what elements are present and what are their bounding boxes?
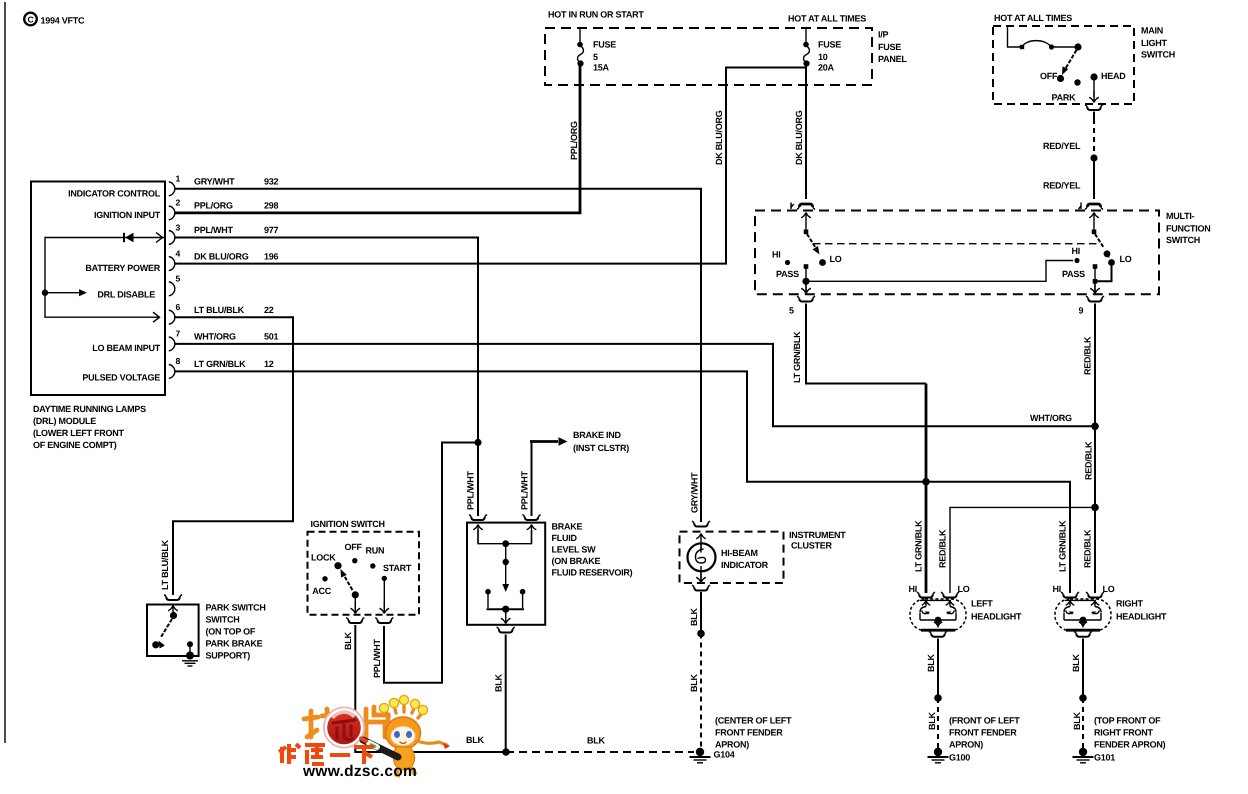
svg-text:HI: HI xyxy=(772,250,781,260)
arrowhead into pin 3 xyxy=(156,233,163,243)
svg-text:(DRL) MODULE: (DRL) MODULE xyxy=(33,416,96,426)
svg-text:10: 10 xyxy=(818,52,828,62)
DRL pin 4 connector xyxy=(169,257,175,271)
splice S406 xyxy=(1090,154,1097,161)
wire BLK dashed to ground xyxy=(937,698,939,748)
svg-text:FLUID RESERVOIR): FLUID RESERVOIR) xyxy=(552,568,633,578)
copyright symbol 1994 VFTC xyxy=(24,13,85,26)
DRL pin 1 connector xyxy=(169,182,175,196)
svg-text:INDICATOR CONTROL: INDICATOR CONTROL xyxy=(68,189,161,199)
wire LT GRN/BLK 12 pin8 to right headlight HI xyxy=(175,371,1070,593)
svg-text:FUSE: FUSE xyxy=(593,40,616,50)
ground G101 xyxy=(1079,748,1087,756)
svg-text:HEADLIGHT: HEADLIGHT xyxy=(1116,612,1167,622)
svg-text:LEFT: LEFT xyxy=(971,599,993,609)
connector below ignition (START) xyxy=(378,620,392,623)
svg-text:PARK SWITCH: PARK SWITCH xyxy=(206,603,266,613)
svg-text:www.dzsc.com: www.dzsc.com xyxy=(302,763,417,780)
svg-text:6: 6 xyxy=(176,302,181,312)
svg-text:RED/BLK: RED/BLK xyxy=(938,529,948,568)
svg-text:FUSE: FUSE xyxy=(818,40,841,50)
svg-text:FLUID: FLUID xyxy=(552,533,578,543)
right LO to output wire xyxy=(1095,263,1112,282)
wire BLK left headlight xyxy=(937,639,939,699)
wire PPL/WHT branch to ignition switch START xyxy=(384,443,478,683)
svg-text:FENDER APRON): FENDER APRON) xyxy=(1094,740,1166,750)
svg-text:BLK: BLK xyxy=(689,608,699,626)
fuse 10 20A xyxy=(803,28,841,73)
svg-text:LO: LO xyxy=(1120,254,1132,264)
svg-text:LT BLU/BLK: LT BLU/BLK xyxy=(160,539,170,590)
ignition wiper arm xyxy=(342,572,353,591)
svg-text:15A: 15A xyxy=(593,63,610,73)
svg-text:OF ENGINE COMPT): OF ENGINE COMPT) xyxy=(33,440,117,450)
svg-text:(INST CLSTR): (INST CLSTR) xyxy=(573,443,629,453)
svg-text:SWITCH: SWITCH xyxy=(1166,235,1200,245)
svg-text:RED/BLK: RED/BLK xyxy=(1083,529,1093,568)
svg-text:HOT IN RUN OR START: HOT IN RUN OR START xyxy=(548,10,644,20)
label PARK SWITCH (ON TOP OF PARK BRAKE SUPPORT) xyxy=(206,603,266,661)
ignition BLK output arrow xyxy=(354,596,356,609)
svg-text:LO: LO xyxy=(830,254,842,264)
svg-text:BRAKE IND: BRAKE IND xyxy=(573,430,622,440)
svg-text:RED/YEL: RED/YEL xyxy=(1043,181,1081,191)
svg-text:PPL/ORG: PPL/ORG xyxy=(194,201,233,211)
svg-text:BLK: BLK xyxy=(926,654,936,672)
HEAD contact dot xyxy=(1090,73,1097,80)
DRL pin 7 connector xyxy=(169,337,175,351)
svg-text:5: 5 xyxy=(176,274,181,284)
connector below MF left (pin 5) xyxy=(799,299,813,302)
wire RED/BLK multi-function pin9 to right headlight LO xyxy=(1094,304,1096,594)
pin mark right (1) xyxy=(1080,203,1082,210)
svg-text:BATTERY POWER: BATTERY POWER xyxy=(85,263,160,273)
svg-text:PARK BRAKE: PARK BRAKE xyxy=(206,639,263,649)
page left border line xyxy=(4,2,6,743)
svg-text:(CENTER OF LEFT: (CENTER OF LEFT xyxy=(715,716,792,726)
svg-text:977: 977 xyxy=(264,225,279,235)
svg-text:MULTI-: MULTI- xyxy=(1166,211,1195,221)
svg-text:SWITCH: SWITCH xyxy=(206,615,240,625)
wire BLK right headlight xyxy=(1082,639,1084,699)
main light switch wiper pivot xyxy=(1074,43,1081,50)
svg-text:8: 8 xyxy=(176,356,181,366)
svg-text:PARK: PARK xyxy=(1052,93,1077,103)
main light switch internal feed wire xyxy=(1008,26,1021,47)
multi-function switch dashed box xyxy=(755,211,1159,295)
brake switch internal tie xyxy=(478,530,532,544)
svg-text:OFF: OFF xyxy=(345,542,363,552)
splice WHT/ORG into RED/BLK xyxy=(1091,423,1099,431)
hi-beam indicator input arrow xyxy=(696,534,706,553)
DRL pin 2 connector xyxy=(169,206,175,220)
left PASS contact xyxy=(804,264,809,269)
connector G100 HI xyxy=(919,595,933,598)
svg-text:FRONT FENDER: FRONT FENDER xyxy=(949,728,1017,738)
svg-text:501: 501 xyxy=(264,332,279,342)
svg-text:APRON): APRON) xyxy=(715,740,749,750)
svg-text:GRY/WHT: GRY/WHT xyxy=(690,472,700,513)
wire BLK dashed to G104 xyxy=(700,634,702,749)
connector below MF right (pin 9) xyxy=(1088,299,1102,302)
connector G101 HI xyxy=(1063,595,1077,598)
svg-text:PPL/WHT: PPL/WHT xyxy=(466,471,476,510)
watermark dzsc logo xyxy=(279,695,450,780)
splice dot bus xyxy=(502,748,510,756)
label I/P FUSE PANEL xyxy=(878,30,907,65)
right headlight bulb xyxy=(1055,599,1111,631)
svg-text:LT GRN/BLK: LT GRN/BLK xyxy=(1058,520,1068,572)
svg-text:LO BEAM INPUT: LO BEAM INPUT xyxy=(92,343,161,353)
svg-text:1994 VFTC: 1994 VFTC xyxy=(41,16,86,26)
park switch input arrow xyxy=(168,606,178,613)
svg-text:START: START xyxy=(383,563,412,573)
brake switch right pin arrow xyxy=(527,525,537,544)
svg-text:LT GRN/BLK: LT GRN/BLK xyxy=(792,331,802,383)
connector below ignition (BLK) xyxy=(349,620,363,623)
svg-text:(FRONT OF LEFT: (FRONT OF LEFT xyxy=(949,716,1020,726)
left LO contact xyxy=(819,259,826,266)
connector above park brake switch xyxy=(166,597,180,600)
main light switch wiper arm xyxy=(1064,50,1077,71)
brake switch output arrow xyxy=(505,609,507,619)
svg-text:PANEL: PANEL xyxy=(878,54,907,64)
wire PPL/ORG 298 pin2 to fuse 5 xyxy=(175,64,580,213)
svg-text:HI: HI xyxy=(1072,246,1081,256)
left output arrow down xyxy=(805,268,807,292)
svg-text:G101: G101 xyxy=(1094,753,1115,763)
park switch ground xyxy=(186,652,194,660)
svg-text:12: 12 xyxy=(264,359,274,369)
wire RED/BLK to left headlight LO xyxy=(950,507,1092,593)
svg-text:932: 932 xyxy=(264,177,279,187)
splice LT GRN/BLK xyxy=(922,478,930,486)
svg-text:FUSE: FUSE xyxy=(878,42,901,52)
brake switch left pin arrow xyxy=(473,525,483,544)
main light switch contact node xyxy=(1020,45,1024,49)
svg-text:CLUSTER: CLUSTER xyxy=(791,541,833,551)
connector below brake switch xyxy=(499,630,513,633)
wire BLK ignition to ground bus xyxy=(355,625,506,752)
label DAYTIME RUNNING LAMPS (DRL) MODULE xyxy=(33,404,146,450)
hi-beam output arrow xyxy=(700,571,702,581)
svg-text:I/P: I/P xyxy=(878,30,889,40)
OFF contact dot xyxy=(1057,75,1064,82)
connector above brake switch right pin xyxy=(525,517,539,520)
label G101 location xyxy=(1094,716,1166,763)
splice RED/BLK to left headlight LO xyxy=(1091,504,1099,512)
DRL internal bus wire xyxy=(45,238,165,318)
svg-text:IGNITION SWITCH: IGNITION SWITCH xyxy=(311,519,385,529)
svg-text:APRON): APRON) xyxy=(949,740,983,750)
connector above instrument cluster xyxy=(694,524,708,527)
svg-text:MAIN: MAIN xyxy=(1141,26,1163,36)
left output junction dot xyxy=(802,278,809,285)
DRL pin 6 connector xyxy=(169,310,175,324)
svg-text:(LOWER LEFT FRONT: (LOWER LEFT FRONT xyxy=(33,428,124,438)
svg-text:5: 5 xyxy=(593,52,598,62)
svg-text:RIGHT FRONT: RIGHT FRONT xyxy=(1094,728,1153,738)
svg-text:HI-BEAM: HI-BEAM xyxy=(721,548,758,558)
main light switch dashed box xyxy=(993,26,1134,104)
svg-text:G100: G100 xyxy=(949,753,970,763)
svg-text:RED/YEL: RED/YEL xyxy=(1043,141,1081,151)
svg-text:DK BLU/ORG: DK BLU/ORG xyxy=(794,110,804,165)
svg-text:RED/BLK: RED/BLK xyxy=(1083,336,1093,375)
svg-text:BLK: BLK xyxy=(494,674,504,692)
pin mark left (flat symbol) xyxy=(790,203,792,210)
splice PPL/WHT xyxy=(474,439,481,446)
hi-beam indicator lamp xyxy=(688,543,716,571)
brake fluid level switch box xyxy=(467,523,545,625)
svg-text:HEAD: HEAD xyxy=(1101,71,1126,81)
ground G104 xyxy=(696,748,704,756)
arrowhead into pin 6 xyxy=(153,312,160,322)
svg-text:DRL DISABLE: DRL DISABLE xyxy=(97,290,155,300)
right LO contact xyxy=(1108,259,1115,266)
left wiper arm xyxy=(807,234,817,250)
svg-text:PULSED VOLTAGE: PULSED VOLTAGE xyxy=(82,373,160,383)
svg-text:GRY/WHT: GRY/WHT xyxy=(194,177,235,187)
svg-text:DK BLU/ORG: DK BLU/ORG xyxy=(194,251,249,261)
svg-text:INDICATOR: INDICATOR xyxy=(721,560,769,570)
DRL disable node and arrow xyxy=(42,290,48,296)
right dimmer switch arrow input xyxy=(1089,213,1099,232)
svg-text:HI: HI xyxy=(909,584,918,594)
wire WHT/ORG 501 pin7 to low beam splice xyxy=(175,344,1092,426)
left headlight bulb xyxy=(910,599,966,631)
wire DK BLU/ORG fuse 10 to multi-function switch xyxy=(805,64,807,199)
PARK contact dot xyxy=(1074,79,1080,85)
svg-text:LIGHT: LIGHT xyxy=(1141,38,1167,48)
svg-text:9: 9 xyxy=(1079,306,1084,316)
I/P fuse panel dashed box xyxy=(545,28,872,85)
svg-text:DAYTIME RUNNING LAMPS: DAYTIME RUNNING LAMPS xyxy=(33,404,146,414)
svg-text:(ON BRAKE: (ON BRAKE xyxy=(552,556,601,566)
brake switch float stem xyxy=(505,544,507,585)
svg-text:BLK: BLK xyxy=(466,735,484,745)
park switch lower contact xyxy=(152,641,159,648)
svg-text:(ON TOP OF: (ON TOP OF xyxy=(206,627,256,637)
svg-text:LO: LO xyxy=(958,584,970,594)
label MAIN LIGHT SWITCH xyxy=(1141,26,1175,60)
internal diode xyxy=(123,233,125,242)
splice BLK xyxy=(934,694,942,702)
fuse 5 15A xyxy=(577,28,616,85)
ground bus BLK dashed xyxy=(506,751,694,753)
svg-text:BLK: BLK xyxy=(1072,712,1082,730)
svg-text:DK BLU/ORG: DK BLU/ORG xyxy=(714,110,724,165)
svg-text:1: 1 xyxy=(176,174,181,184)
DRL pin 3 connector xyxy=(169,231,175,245)
svg-text:PPL/WHT: PPL/WHT xyxy=(194,225,233,235)
DRL module box xyxy=(31,182,165,396)
wire LT GRN/BLK multi-function pin5 to left headlight HI xyxy=(806,304,926,384)
splice BLK xyxy=(1079,694,1087,702)
label BRAKE FLUID LEVEL SW (ON BRAKE FLUID RESERVOIR) xyxy=(552,522,633,578)
svg-text:(TOP FRONT OF: (TOP FRONT OF xyxy=(1094,716,1161,726)
ignition START output arrow xyxy=(383,578,385,609)
svg-text:INSTRUMENT: INSTRUMENT xyxy=(789,530,846,540)
right output arrow down xyxy=(1094,268,1096,292)
svg-text:LT GRN/BLK: LT GRN/BLK xyxy=(914,520,924,572)
svg-text:PPL/ORG: PPL/ORG xyxy=(569,121,579,160)
DRL internal labels xyxy=(68,189,161,383)
svg-text:G104: G104 xyxy=(714,750,735,760)
connector at MF switch left top xyxy=(799,204,813,207)
svg-text:SWITCH: SWITCH xyxy=(1141,50,1175,60)
brake switch contacts xyxy=(485,589,491,595)
lamp filament xyxy=(695,549,705,563)
wire PPL/WHT 977 pin3 to brake fluid level switch xyxy=(175,238,478,517)
svg-text:PPL/WHT: PPL/WHT xyxy=(520,471,530,510)
right wiper pivot node xyxy=(1092,230,1097,235)
park switch ground contact xyxy=(187,641,193,647)
instrument cluster dashed box xyxy=(680,532,784,583)
wire GRY/WHT 932 pin1 to instrument cluster xyxy=(175,189,701,522)
svg-text:OFF: OFF xyxy=(1040,71,1058,81)
svg-text:7: 7 xyxy=(176,329,181,339)
main light switch coil hump xyxy=(1022,41,1051,47)
left wiper pivot node xyxy=(804,230,809,235)
wire BLK dashed to ground xyxy=(1082,698,1084,748)
svg-text:BRAKE: BRAKE xyxy=(552,522,583,532)
svg-text:196: 196 xyxy=(264,251,279,261)
svg-text:BLK: BLK xyxy=(587,736,605,746)
internal link PASS(left) to HI(right) xyxy=(806,261,1073,282)
right wiper arm xyxy=(1095,234,1104,248)
wire RED/YEL solid xyxy=(1093,158,1095,199)
ignition switch dashed box xyxy=(308,532,420,615)
svg-text:LEVEL SW: LEVEL SW xyxy=(552,545,597,555)
svg-text:4: 4 xyxy=(176,248,181,258)
connector below instrument cluster xyxy=(694,588,708,591)
svg-text:HOT AT ALL TIMES: HOT AT ALL TIMES xyxy=(788,14,866,24)
svg-text:WHT/ORG: WHT/ORG xyxy=(1030,413,1072,423)
ground G100 xyxy=(934,748,942,756)
left dimmer switch arrow input xyxy=(801,213,811,232)
label MULTI-FUNCTION SWITCH xyxy=(1166,211,1211,245)
connector below left headlight xyxy=(931,634,945,637)
svg-text:FUNCTION: FUNCTION xyxy=(1166,224,1211,234)
wire PPL/WHT brake ind with arrow xyxy=(531,442,533,517)
svg-text:HI: HI xyxy=(1053,584,1062,594)
svg-text:RED/BLK: RED/BLK xyxy=(1084,441,1094,480)
connector below right headlight xyxy=(1076,634,1090,637)
park switch wiper arm xyxy=(161,619,172,637)
svg-text:WHT/ORG: WHT/ORG xyxy=(194,332,236,342)
svg-text:BLK: BLK xyxy=(343,632,353,650)
DRL pin 8 connector xyxy=(169,364,175,378)
svg-text:3: 3 xyxy=(176,222,181,232)
svg-text:RIGHT: RIGHT xyxy=(1116,599,1144,609)
connector at MF switch right top xyxy=(1087,204,1101,207)
svg-text:RUN: RUN xyxy=(366,546,385,556)
svg-text:20A: 20A xyxy=(818,63,835,73)
svg-text:IGNITION INPUT: IGNITION INPUT xyxy=(94,210,161,220)
svg-text:LOCK: LOCK xyxy=(311,553,336,563)
svg-text:LO: LO xyxy=(1103,584,1115,594)
watermark mascot xyxy=(361,695,450,778)
svg-text:ACC: ACC xyxy=(312,586,331,596)
wire LT BLU/BLK 22 pin6 to park switch xyxy=(173,317,293,595)
connector G100 LO xyxy=(943,595,957,598)
park brake switch box xyxy=(147,605,199,657)
svg-text:BLK: BLK xyxy=(689,674,699,692)
park switch pivot dot xyxy=(170,612,177,619)
mechanical link dashed xyxy=(813,243,1101,245)
wire HEAD output with arrow xyxy=(1093,77,1095,97)
svg-text:HEADLIGHT: HEADLIGHT xyxy=(971,612,1022,622)
svg-text:SUPPORT): SUPPORT) xyxy=(206,651,251,661)
svg-text:5: 5 xyxy=(789,306,794,316)
svg-text:PPL/WHT: PPL/WHT xyxy=(372,639,382,678)
label G100 location xyxy=(949,716,1020,763)
svg-text:HOT AT ALL TIMES: HOT AT ALL TIMES xyxy=(994,13,1072,23)
svg-text:BLK: BLK xyxy=(1071,654,1081,672)
wire DK BLU/ORG 196 pin4 to fuse 10 xyxy=(175,68,806,264)
svg-text:FRONT FENDER: FRONT FENDER xyxy=(715,728,783,738)
wire BLK instrument cluster xyxy=(700,592,702,630)
ignition wiper pivot xyxy=(352,591,359,598)
wire BLK brake switch to ground bus xyxy=(505,635,507,753)
DRL pin 5 connector xyxy=(169,282,175,296)
label G104 location xyxy=(714,716,792,760)
svg-text:LT BLU/BLK: LT BLU/BLK xyxy=(194,305,245,315)
right PASS contact xyxy=(1093,264,1098,269)
svg-text:BLK: BLK xyxy=(927,712,937,730)
connector below main light switch xyxy=(1087,107,1101,110)
svg-text:2: 2 xyxy=(176,198,181,208)
svg-text:PASS: PASS xyxy=(1062,269,1085,279)
svg-text:C: C xyxy=(27,14,33,24)
svg-text:298: 298 xyxy=(264,201,279,211)
svg-text:22: 22 xyxy=(264,305,274,315)
svg-text:LT GRN/BLK: LT GRN/BLK xyxy=(194,359,246,369)
splice BLK xyxy=(697,630,705,638)
connector above brake switch left pin xyxy=(471,517,485,520)
connector G101 LO xyxy=(1088,595,1102,598)
svg-text:PASS: PASS xyxy=(776,269,799,279)
wire RED/YEL dashed xyxy=(1093,119,1095,153)
brake switch output bar xyxy=(487,608,525,610)
